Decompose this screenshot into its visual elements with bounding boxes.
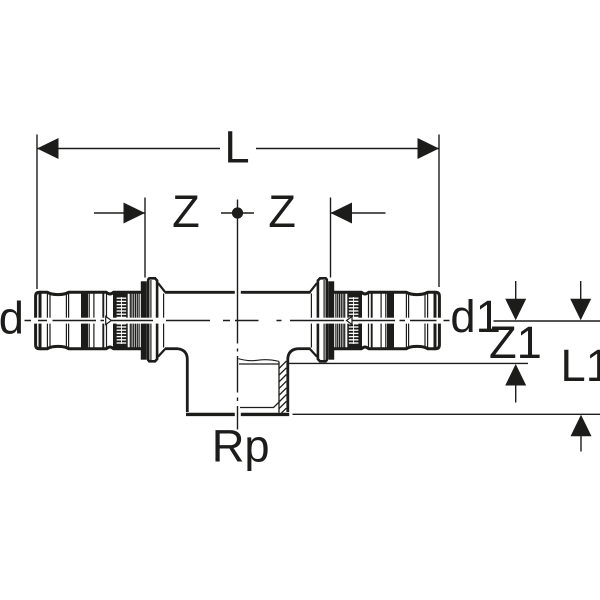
dimension Z right line <box>331 212 386 214</box>
dimension Z left extension <box>144 198 146 278</box>
arrow L left <box>37 138 59 159</box>
arrow Z left <box>124 203 146 224</box>
dimension Z left line <box>94 212 145 214</box>
d1 datum line <box>494 320 600 322</box>
thread hatching <box>279 361 286 413</box>
thread bore top line <box>239 363 279 365</box>
svg-text:Z: Z <box>172 186 200 237</box>
insertion mark arrow right <box>347 316 353 324</box>
dimension L line <box>37 148 439 150</box>
svg-text:d: d <box>0 292 24 343</box>
horizontal main centerline <box>25 320 450 322</box>
center point marker <box>221 207 254 218</box>
centerline halo horizontal <box>33 318 442 324</box>
dimension Z right extension <box>330 198 332 278</box>
press end right (mirrored) <box>310 278 440 361</box>
section break wavy line <box>238 359 279 362</box>
L1 up arrow <box>571 415 592 452</box>
branch socket right wall <box>288 349 298 412</box>
centerline halo vertical <box>235 289 241 419</box>
dimension L extension line right <box>438 135 440 288</box>
svg-text:L1: L1 <box>561 340 600 391</box>
body tube <box>165 292 311 348</box>
branch bottom face <box>186 413 289 416</box>
svg-text:Z: Z <box>268 186 296 237</box>
insertion mark arrow left <box>106 316 112 324</box>
arrow L right <box>418 138 440 159</box>
svg-text:Z1: Z1 <box>489 317 542 368</box>
svg-text:L: L <box>224 122 249 173</box>
branch socket left wall <box>178 349 187 412</box>
mouth chamfer line <box>240 402 279 407</box>
Z1 up arrow <box>505 364 526 403</box>
press end left <box>36 278 166 361</box>
L1 down arrow <box>570 281 591 320</box>
Z1 extension line <box>289 362 529 364</box>
L1 extension line <box>293 413 600 415</box>
arrow Z right <box>331 203 353 224</box>
Z1 down arrow <box>505 281 526 320</box>
dimension L extension line left <box>36 135 38 290</box>
vertical branch centerline <box>237 200 239 430</box>
thread bore wall line <box>278 362 280 413</box>
svg-text:Rp: Rp <box>212 421 270 472</box>
